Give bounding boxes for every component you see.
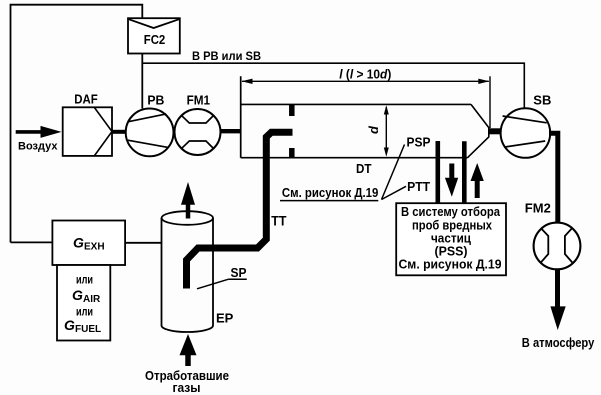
svg-text:газы: газы (173, 380, 201, 395)
mixing orifice dashes in tunnel (289, 105, 295, 157)
svg-text:PB: PB (147, 93, 164, 108)
wire FC2 down to blower PB (141, 54, 143, 109)
PSS box (396, 203, 506, 275)
wire feedback loop from G_EXH up and over to FC2 (11, 5, 143, 243)
svg-text:FUEL: FUEL (75, 324, 101, 335)
alternative measurement box G_AIR / G_FUEL (57, 265, 110, 341)
svg-text:G: G (73, 235, 84, 251)
air filter DAF (63, 92, 112, 156)
svg-text:В РВ или SB: В РВ или SB (192, 49, 261, 63)
dimension d arrow inside tunnel (384, 105, 389, 157)
callout line to PTT (382, 186, 407, 199)
gas out arrow above EP (181, 182, 195, 219)
measurement box G_EXH (52, 221, 125, 266)
svg-text:PSP: PSP (407, 134, 431, 149)
callout line to PSP (382, 145, 405, 200)
sampling probe PSP (435, 141, 440, 203)
pipe stub tunnel to SB (489, 128, 502, 134)
flow controller FC2 (128, 18, 180, 53)
flow up arrow from PSS (471, 163, 484, 198)
svg-text:FC2: FC2 (144, 32, 166, 47)
label Sm. risunok D.19 with underline (280, 185, 378, 201)
svg-text:d: d (366, 125, 381, 134)
svg-text:Воздух: Воздух (18, 141, 58, 153)
svg-text:См. рисунок Д.19: См. рисунок Д.19 (399, 257, 502, 272)
dilution tunnel DT outline (241, 76, 489, 157)
flow meter FM2 (525, 201, 581, 270)
svg-text:G: G (64, 317, 75, 333)
svg-text:PTT: PTT (407, 179, 430, 194)
svg-text:TT: TT (271, 212, 287, 228)
pipe FM1 to dilution tunnel (220, 129, 241, 133)
exhaust to atmosphere arrow (550, 268, 565, 330)
flow down arrow into PSS (445, 164, 458, 197)
svg-text:DT: DT (356, 161, 372, 176)
transfer tube TT thick pipe from SP up into tunnel (187, 132, 293, 288)
dimension line l with arrows (242, 79, 490, 84)
svg-text:EXH: EXH (84, 242, 105, 253)
pipe SB to FM2 (549, 133, 558, 223)
svg-text:G: G (72, 287, 83, 303)
svg-text:или: или (76, 272, 93, 286)
callout line SP to probe (197, 279, 228, 289)
suction blower SB (501, 92, 552, 157)
sampling probe PTT (462, 141, 467, 203)
exhaust pipe EP cylinder (162, 211, 234, 332)
svg-text:l (l > 10d): l (l > 10d) (339, 68, 391, 82)
label SP with underline (228, 265, 247, 280)
svg-text:AIR: AIR (83, 294, 101, 305)
flow meter FM1 (175, 93, 221, 155)
svg-text:SP: SP (231, 265, 247, 280)
svg-text:В атмосферу: В атмосферу (522, 335, 595, 350)
dimension l extension line right (489, 76, 491, 128)
svg-text:См. рисунок Д.19: См. рисунок Д.19 (282, 185, 379, 200)
pipe DAF to PB (111, 130, 127, 134)
air inlet arrow (16, 126, 62, 138)
blower PB (126, 93, 174, 157)
svg-text:SB: SB (533, 92, 551, 107)
wire "B PB ili SB" branch to suction blower SB (142, 63, 524, 109)
svg-text:EP: EP (216, 310, 234, 325)
wire G_EXH to EP (125, 242, 161, 244)
svg-text:или: или (76, 305, 93, 319)
svg-text:FM2: FM2 (525, 201, 551, 216)
svg-text:FM1: FM1 (187, 93, 211, 108)
gas in arrow below EP (180, 334, 197, 366)
svg-text:DAF: DAF (74, 92, 98, 107)
wire loop to G_EXH (11, 241, 53, 243)
